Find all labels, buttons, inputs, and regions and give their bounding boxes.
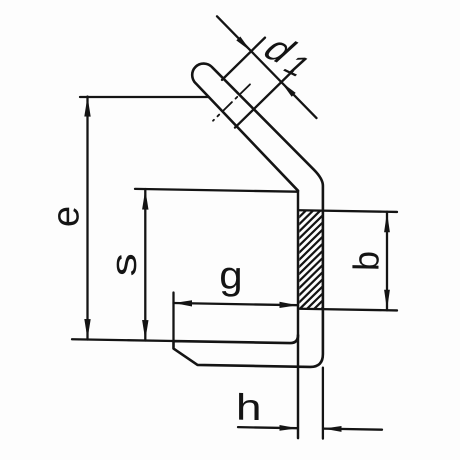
- svg-text:b: b: [345, 251, 386, 272]
- svg-text:h: h: [236, 386, 262, 428]
- extension line e top: [80, 95, 208, 99]
- dimension line s: [144, 189, 146, 341]
- extension line s top: [135, 189, 297, 192]
- centerline (dash-dot): [213, 84, 250, 122]
- extension line d1 lower: [235, 70, 293, 129]
- svg-text:s: s: [103, 253, 144, 277]
- h extension line right: [322, 368, 324, 439]
- svg-text:g: g: [219, 253, 242, 298]
- extension line e/s bottom: [72, 339, 174, 341]
- dimension line h right: [324, 429, 383, 430]
- section hatch: [198, 204, 424, 313]
- dimension line g: [174, 303, 299, 305]
- svg-text:e: e: [46, 206, 88, 228]
- dimension line d1 arrow 1: [217, 16, 317, 118]
- plate inner edge with h extension below: [297, 191, 299, 438]
- extension line b top: [300, 210, 398, 212]
- hook outline: [174, 63, 323, 367]
- dimension line e: [86, 97, 88, 340]
- dimension line d1 arrow 2: [281, 82, 296, 97]
- extension line b bottom: [300, 309, 398, 311]
- dimension line h left: [238, 427, 297, 428]
- dimension line b: [386, 212, 388, 311]
- svg-text:d1: d1: [254, 28, 321, 83]
- extension line d1 upper: [222, 37, 265, 81]
- extension line g left: [172, 293, 174, 342]
